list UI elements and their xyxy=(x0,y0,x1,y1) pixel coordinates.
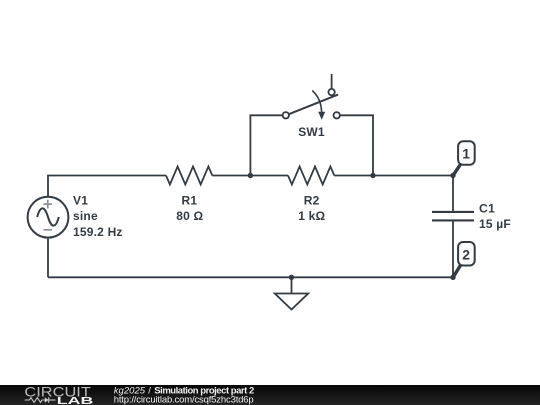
svg-text:R2: R2 xyxy=(304,193,320,207)
svg-text:V1: V1 xyxy=(73,193,88,207)
svg-text:sine: sine xyxy=(73,209,98,223)
svg-text:1: 1 xyxy=(462,146,470,162)
svg-text:2: 2 xyxy=(462,246,470,262)
svg-text:15 µF: 15 µF xyxy=(479,217,511,231)
svg-text:80 Ω: 80 Ω xyxy=(176,209,203,223)
svg-text:http://circuitlab.com/csqf5zhc: http://circuitlab.com/csqf5zhc3td6p xyxy=(114,395,254,405)
svg-text:R1: R1 xyxy=(182,193,198,207)
svg-text:SW1: SW1 xyxy=(298,125,325,139)
svg-text:159.2 Hz: 159.2 Hz xyxy=(73,225,123,239)
svg-text:C1: C1 xyxy=(479,201,495,215)
svg-text:LAB: LAB xyxy=(57,395,94,405)
svg-text:1 kΩ: 1 kΩ xyxy=(298,209,325,223)
